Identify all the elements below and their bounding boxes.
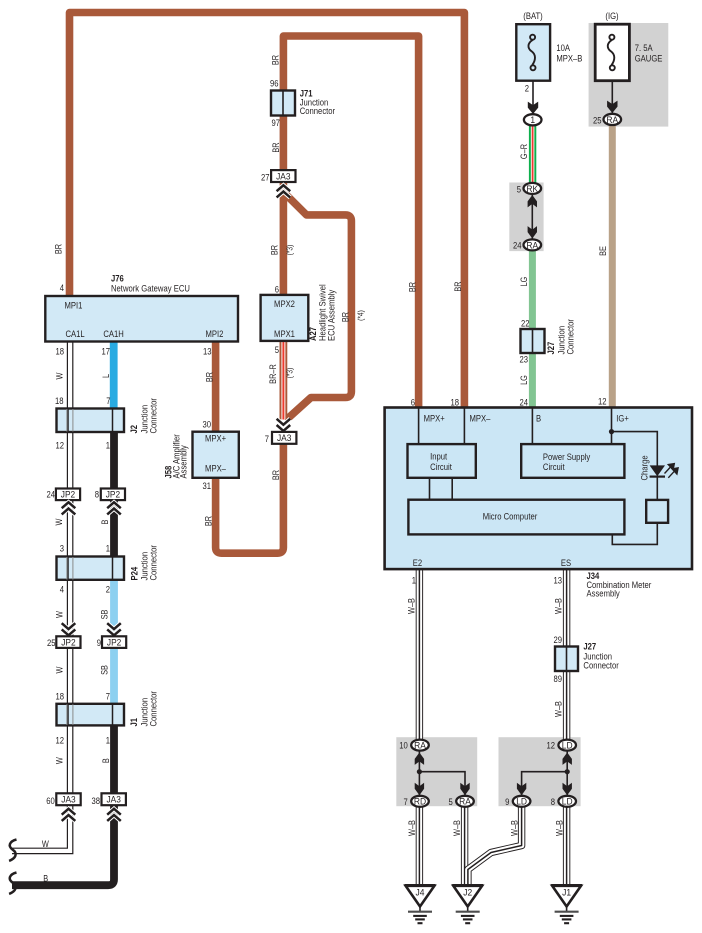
wire W-B J34 E2 pin1 to RA pin10 (416, 568, 423, 740)
svg-text:W–B: W–B (553, 701, 564, 717)
svg-text:Charge: Charge (638, 455, 649, 480)
svg-text:18: 18 (55, 395, 64, 406)
svg-text:JA3: JA3 (106, 794, 121, 804)
wire BR branch (*4) right loop (283, 192, 351, 421)
connector JP2-24 (56, 489, 80, 501)
svg-text:W: W (42, 838, 49, 849)
svg-text:7. 5A: 7. 5A (635, 42, 653, 53)
wire thin fuse IG lead to connector 25 RA (611, 81, 613, 113)
chevron below JP2-24 (62, 502, 76, 514)
svg-text:5: 5 (517, 184, 521, 195)
svg-text:W: W (54, 611, 65, 618)
svg-text:9: 9 (505, 796, 509, 807)
arrow down into RD7 (415, 783, 424, 795)
svg-text:Connector: Connector (148, 691, 159, 727)
arrow down into RA5 (460, 783, 469, 795)
svg-text:2: 2 (525, 83, 529, 94)
svg-text:JP2: JP2 (61, 637, 76, 647)
connector ellipse 25 RA (604, 114, 622, 125)
svg-text:24: 24 (513, 239, 522, 250)
svg-text:W–B: W–B (553, 820, 564, 836)
svg-text:BR: BR (270, 55, 281, 65)
svg-text:7: 7 (106, 395, 110, 406)
ECU box J76 Network Gateway ECU (45, 296, 238, 342)
svg-text:BR: BR (340, 312, 351, 322)
svg-text:29: 29 (553, 634, 562, 645)
wire thin link RK pin5 to RA pin24 (531, 193, 533, 240)
svg-text:BR: BR (268, 245, 279, 255)
svg-text:24: 24 (46, 488, 55, 499)
internal lead MPX+ (418, 408, 420, 444)
svg-text:12: 12 (55, 735, 64, 746)
wire thin link LD12 to LD8 with junction (566, 751, 568, 796)
svg-text:GAUGE: GAUGE (635, 53, 663, 64)
wire BR-R A27 MPX1 pin5 to JA3-7 (279, 340, 287, 420)
svg-text:RA: RA (459, 796, 471, 806)
svg-text:8: 8 (95, 488, 99, 499)
svg-text:RD: RD (414, 796, 426, 806)
svg-text:23: 23 (519, 354, 528, 365)
svg-text:SB: SB (99, 609, 110, 619)
wire B J2 pin1 to P24 pin1 (110, 432, 118, 557)
gray shading box RK/RA connectors (509, 183, 543, 252)
svg-text:MPX–: MPX– (205, 463, 226, 474)
ground J2 (452, 885, 483, 923)
svg-text:JP2: JP2 (61, 489, 76, 499)
junction dot IG+ (609, 429, 614, 434)
svg-text:ECU Assembly: ECU Assembly (326, 289, 337, 341)
connector JP2-8 (101, 489, 125, 501)
connector ellipse 24 RA (524, 239, 542, 250)
svg-text:(*4): (*4) (356, 310, 366, 321)
chevron above JP2-9 (107, 623, 121, 635)
svg-text:97: 97 (271, 117, 280, 128)
svg-text:RA: RA (526, 240, 538, 250)
wire BR J71 pin97 to JA3-27 (280, 115, 288, 172)
ground J4 (405, 885, 436, 923)
resistor box (646, 500, 668, 523)
svg-text:6: 6 (275, 284, 279, 295)
svg-text:W–B: W–B (406, 820, 417, 836)
svg-text:10A: 10A (556, 42, 570, 53)
svg-text:(*3): (*3) (285, 244, 295, 255)
svg-text:W–B: W–B (553, 598, 564, 614)
wire LG RA pin24 to J34 B pin24 (529, 250, 536, 409)
svg-text:BR: BR (452, 281, 463, 291)
wire W-B LD9 to ground J2 with jog (468, 807, 522, 885)
wire BR outer loop: J76 MPI1 pin4 to J34 MPX- pin18 (70, 13, 465, 409)
svg-text:W–B: W–B (406, 598, 417, 614)
arrow down into RA24 (528, 226, 537, 238)
connector JA3-60 (56, 793, 80, 805)
svg-text:JP2: JP2 (106, 489, 121, 499)
wire W-B RD7 to ground J4 (416, 807, 423, 887)
wire LED to resistor (656, 477, 658, 500)
wire thin link RA10 to RD7 with junction (418, 751, 420, 796)
junction connector J2 (57, 409, 125, 433)
svg-text:89: 89 (553, 673, 562, 684)
svg-text:J2: J2 (463, 887, 472, 897)
arrow into connector 25 RA (607, 101, 617, 113)
svg-text:1: 1 (106, 440, 110, 451)
svg-text:5: 5 (449, 796, 453, 807)
wire L CA1H pin17 to J2 pin7 (110, 341, 118, 410)
svg-text:CA1L: CA1L (66, 328, 85, 339)
svg-text:JA3: JA3 (277, 433, 292, 443)
svg-text:SB: SB (99, 665, 110, 675)
wire thin branch to RA5 (419, 772, 465, 796)
svg-text:1: 1 (106, 543, 110, 554)
svg-text:13: 13 (553, 575, 562, 586)
svg-text:Assembly: Assembly (587, 587, 621, 598)
svg-text:Circuit: Circuit (430, 461, 452, 472)
svg-text:Input: Input (430, 451, 448, 462)
svg-text:10: 10 (399, 740, 408, 751)
micro computer box (408, 500, 624, 535)
connector JP2-9 (102, 636, 126, 648)
svg-text:12: 12 (598, 396, 607, 407)
LED cathode bar (650, 476, 665, 478)
chevron above JP2-25 (62, 623, 76, 635)
svg-text:W: W (54, 666, 65, 673)
svg-text:J4: J4 (416, 887, 425, 897)
svg-text:17: 17 (101, 346, 110, 357)
svg-text:18: 18 (55, 346, 64, 357)
svg-text:Connector: Connector (148, 545, 159, 581)
connector JA3-38 (102, 793, 126, 805)
svg-text:BR: BR (270, 142, 281, 152)
gray shading box IG circuit (589, 23, 669, 127)
svg-text:8: 8 (551, 796, 555, 807)
svg-text:(BAT): (BAT) (523, 10, 543, 21)
connector ellipse 5 RA (456, 796, 474, 807)
svg-text:4: 4 (60, 282, 64, 293)
svg-text:BE: BE (597, 246, 608, 256)
connector ellipse 1 (524, 114, 542, 125)
combination meter box J34 (385, 408, 692, 570)
junction connector J27 green wire (521, 329, 545, 353)
input circuit box (408, 444, 476, 478)
svg-text:Connector: Connector (148, 398, 159, 434)
svg-text:Network Gateway ECU: Network Gateway ECU (111, 283, 190, 294)
fuse element BAT (528, 35, 535, 71)
svg-text:ES: ES (561, 557, 571, 568)
svg-text:CA1H: CA1H (103, 328, 123, 339)
svg-text:BR–R: BR–R (267, 364, 278, 384)
arrow into connector 1 (528, 102, 538, 114)
junction connector J27 on ES wire (555, 647, 578, 672)
fuse element IG (608, 35, 615, 71)
svg-text:E2: E2 (413, 557, 423, 568)
wire W CA1L pin18 down through J2,JP2,P24,JP2,J1,JA3 to break (12, 341, 70, 851)
break squiggle B wire (9, 873, 16, 894)
svg-text:38: 38 (91, 795, 100, 806)
chevron below JP2-8 (107, 502, 121, 514)
svg-text:Connector: Connector (300, 105, 336, 116)
wire SB P24 pin2 to J1 pin7 (110, 579, 118, 704)
svg-text:J2: J2 (128, 425, 139, 434)
svg-text:5: 5 (275, 344, 279, 355)
connector ellipse 10 RA (411, 740, 429, 751)
svg-text:L: L (100, 374, 111, 378)
svg-text:(IG): (IG) (605, 10, 618, 21)
fuse 10A MPX-B box (516, 24, 550, 80)
svg-text:96: 96 (270, 78, 279, 89)
ECU box J58 A/C Amplifier (193, 432, 239, 478)
svg-text:JA3: JA3 (61, 794, 76, 804)
wire thin branch to LD9 (522, 772, 568, 796)
chevron below JA3-27 (277, 185, 291, 197)
svg-text:G–R: G–R (518, 144, 529, 159)
arrow down into LD8 (563, 783, 572, 795)
svg-text:Assembly: Assembly (178, 445, 189, 479)
wire BR J76 MPI2 pin13 to J58 MPX+ pin30 (212, 341, 220, 433)
svg-text:MPX1: MPX1 (274, 328, 295, 339)
connector JA3-7 (272, 432, 296, 444)
svg-text:Micro Computer: Micro Computer (483, 511, 538, 522)
arrow down into LD9 (517, 783, 526, 795)
svg-text:7: 7 (265, 433, 269, 444)
svg-text:JP2: JP2 (107, 637, 122, 647)
svg-text:4: 4 (60, 584, 64, 595)
svg-text:Connector: Connector (583, 660, 619, 671)
svg-text:3: 3 (60, 543, 64, 554)
svg-text:7: 7 (106, 691, 110, 702)
svg-text:9: 9 (97, 637, 101, 648)
svg-text:18: 18 (55, 691, 64, 702)
wire dot to LED (612, 432, 658, 466)
chevron below JA3-38 (107, 809, 121, 821)
svg-text:18: 18 (450, 397, 459, 408)
svg-text:1: 1 (530, 115, 535, 125)
svg-text:W–B: W–B (451, 820, 462, 836)
svg-text:31: 31 (202, 480, 211, 491)
svg-text:12: 12 (546, 740, 555, 751)
connector ellipse 12 LD (558, 740, 576, 751)
chevron above JA3-7 (277, 419, 291, 431)
wire W-B J34 ES pin13 to LD pin12 (563, 568, 570, 740)
svg-text:BR: BR (270, 470, 281, 480)
svg-text:LD: LD (562, 796, 573, 806)
svg-text:IG+: IG+ (616, 413, 629, 424)
svg-text:RK: RK (526, 183, 538, 193)
junction connector P24 (57, 557, 125, 580)
svg-text:MPX–: MPX– (470, 413, 491, 424)
wire resistor to micro computer (612, 523, 657, 545)
svg-text:W: W (53, 518, 64, 525)
internal lead B (531, 408, 533, 444)
svg-text:B: B (100, 758, 111, 763)
connector JA3-27 (271, 170, 295, 182)
wire G-R connector 1 to RK pin5 (529, 125, 536, 184)
connector ellipse 9 LD (513, 796, 531, 807)
internal lead IG+ (611, 408, 613, 444)
gray shading box LD connectors (499, 737, 581, 806)
LED light ray arrows (665, 464, 679, 478)
svg-text:27: 27 (261, 172, 270, 183)
svg-text:Circuit: Circuit (543, 461, 565, 472)
ECU box A27 Headlight Swivel (261, 295, 309, 341)
junction connector J1 (57, 704, 125, 726)
svg-text:BR: BR (53, 244, 64, 254)
junction dot LD branch (565, 769, 570, 774)
connector JP2-25 (56, 636, 80, 648)
svg-text:Connector: Connector (565, 319, 576, 355)
svg-text:60: 60 (46, 795, 55, 806)
connector ellipse 7 RD (411, 796, 429, 807)
svg-text:J1: J1 (128, 718, 139, 727)
wire B J1 pin1 to break symbol (12, 725, 114, 885)
svg-text:MPI1: MPI1 (65, 300, 83, 311)
svg-text:12: 12 (55, 440, 64, 451)
gray shading box RA/RD connectors (396, 737, 477, 806)
svg-text:13: 13 (203, 346, 212, 357)
input to micro links (429, 478, 431, 500)
chevron below JA3-60 (62, 809, 76, 821)
svg-text:(*3): (*3) (285, 367, 295, 378)
ground J1 (551, 885, 582, 923)
LED charge triangle (650, 465, 665, 476)
wire BE RA pin25 to J34 IG+ pin12 (609, 125, 616, 408)
svg-text:B: B (536, 413, 541, 424)
junction dot RA branch (417, 769, 422, 774)
svg-text:22: 22 (521, 317, 530, 328)
svg-text:6: 6 (411, 397, 415, 408)
arrow up into RK5 (528, 195, 537, 207)
svg-text:J1: J1 (562, 887, 571, 897)
svg-text:1: 1 (106, 735, 110, 746)
connector ellipse 8 LD (558, 796, 576, 807)
svg-text:LD: LD (562, 740, 573, 750)
svg-text:1: 1 (412, 575, 416, 586)
wire thin fuse BAT lead to connector 1 (532, 81, 534, 114)
svg-text:7: 7 (404, 796, 408, 807)
svg-text:LG: LG (518, 375, 529, 385)
svg-text:MPI2: MPI2 (206, 328, 224, 339)
fuse 7.5A GAUGE box (595, 24, 629, 80)
svg-text:J27: J27 (545, 342, 556, 355)
wire W-B RA5 to ground J2 (461, 807, 468, 887)
arrow up into LD12 (563, 753, 572, 765)
svg-text:BR: BR (203, 516, 214, 526)
svg-text:B: B (43, 872, 48, 883)
svg-text:LD: LD (516, 796, 527, 806)
svg-text:24: 24 (519, 396, 528, 407)
svg-text:W–B: W–B (509, 820, 520, 836)
svg-text:2: 2 (106, 584, 110, 595)
svg-text:MPX+: MPX+ (424, 413, 445, 424)
svg-text:RA: RA (414, 740, 426, 750)
svg-text:25: 25 (593, 115, 602, 126)
wire BR JA3-7 to J58 MPX- pin31 (216, 442, 284, 553)
arrow up into RA10 (415, 753, 424, 765)
svg-text:BR: BR (204, 372, 215, 382)
wire W-B LD8 to ground J1 (563, 807, 570, 887)
power supply circuit box (521, 444, 624, 478)
svg-text:25: 25 (47, 637, 56, 648)
svg-text:MPX+: MPX+ (205, 433, 226, 444)
svg-text:W: W (54, 372, 65, 379)
svg-text:MPX–B: MPX–B (556, 53, 582, 64)
svg-text:BR: BR (407, 282, 418, 292)
internal lead MPX- (463, 408, 465, 444)
svg-text:B: B (99, 519, 110, 524)
wire BR JA3-27 to A27 MPX2 pin6 (280, 182, 288, 297)
svg-text:RA: RA (606, 114, 618, 124)
svg-text:W: W (54, 757, 65, 764)
junction connector J71 (271, 91, 295, 116)
break squiggle W wire (9, 840, 16, 861)
svg-text:LG: LG (518, 277, 529, 287)
connector ellipse 5 RK (524, 183, 542, 194)
svg-text:30: 30 (202, 419, 211, 430)
wire BR inner loop: J71 pin96 to J34 MPX+ pin6 (283, 36, 418, 408)
svg-text:JA3: JA3 (276, 171, 291, 181)
svg-text:MPX2: MPX2 (274, 298, 295, 309)
